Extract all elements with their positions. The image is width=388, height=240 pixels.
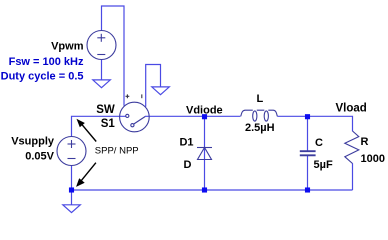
svg-text:Duty cycle = 0.5: Duty cycle = 0.5	[1, 71, 84, 83]
svg-text:D1: D1	[179, 136, 193, 148]
wire Vsupply to switch S1 (node SW)	[72, 116, 126, 136]
svg-text:Vsupply: Vsupply	[11, 136, 55, 148]
svg-text:SW: SW	[96, 104, 115, 116]
svg-text:D: D	[184, 159, 192, 171]
wire switch to Vdiode to inductor	[145, 115, 241, 117]
voltage source Vpwm	[87, 31, 116, 60]
svg-text:Fsw = 100 kHz: Fsw = 100 kHz	[9, 56, 84, 68]
svg-text:1000: 1000	[361, 153, 385, 165]
svg-text:S1: S1	[101, 118, 116, 130]
ground bottom left	[63, 205, 81, 213]
svg-text:Vdiode: Vdiode	[186, 105, 223, 117]
svg-text:C: C	[315, 137, 323, 149]
wire Vpwm bottom to ground	[101, 60, 103, 80]
node Vdiode junction top	[202, 114, 207, 119]
svg-text:0.05V: 0.05V	[25, 151, 54, 163]
svg-text:Vload: Vload	[336, 102, 367, 114]
svg-text:R: R	[361, 136, 369, 148]
switch S1	[120, 102, 150, 132]
wire switch control - to ground	[146, 65, 161, 107]
wire capacitor branch bottom	[307, 156, 309, 191]
wire capacitor branch top	[307, 116, 309, 151]
node junction capacitor bottom	[305, 187, 310, 192]
voltage source Vsupply	[57, 137, 86, 166]
wire diode branch	[204, 116, 206, 190]
annotation arrow to switch wire	[78, 120, 96, 141]
capacitor C	[300, 151, 316, 155]
wire resistor bottom	[352, 163, 354, 190]
svg-text:5µF: 5µF	[314, 159, 333, 171]
svg-text:SPP/ NPP: SPP/ NPP	[95, 145, 139, 156]
svg-text:Vpwm: Vpwm	[51, 41, 84, 53]
wire Vpwm top loop to switch control +	[102, 6, 125, 106]
resistor R	[345, 131, 359, 164]
wire bottom rail	[72, 189, 353, 191]
node junction diode bottom	[202, 187, 207, 192]
svg-text:2.5µH: 2.5µH	[245, 122, 275, 134]
wire Vsupply bottom to ground rail	[71, 166, 73, 205]
annotation arrow to ground node	[77, 163, 96, 186]
wire inductor to Vload corner to resistor	[277, 116, 352, 131]
node junction capacitor top	[305, 114, 310, 119]
diode D1	[197, 148, 212, 160]
ground below Vpwm	[93, 80, 111, 88]
ground right of switch	[152, 87, 170, 95]
inductor L	[241, 110, 277, 121]
switch S1 control terminal marks + and -	[126, 94, 142, 98]
node junction at Vsupply ground	[69, 187, 74, 192]
svg-text:L: L	[257, 93, 264, 105]
